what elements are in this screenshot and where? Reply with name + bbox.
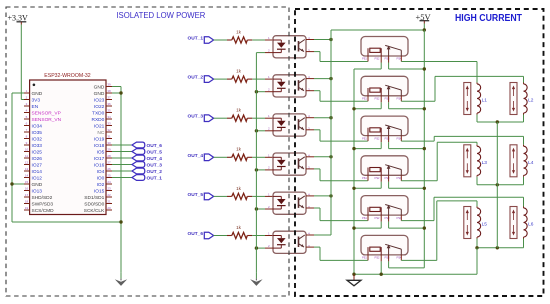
junction mid rail pair 2: [496, 183, 499, 186]
inductor L6: [510, 207, 534, 239]
wire K1 coil pin 1 stub: [367, 56, 369, 62]
svg-text:OUT_5: OUT_5: [147, 150, 163, 156]
svg-text:L3: L3: [482, 160, 488, 166]
svg-text:31: 31: [107, 135, 111, 139]
wire OUT_5 to R5: [214, 195, 227, 197]
wire K3 NO to L4: [401, 136, 523, 144]
wire K6 NO to L5: [401, 201, 477, 261]
U1 right pin 35 TXD0: [92, 109, 112, 117]
svg-text:SD0/SD0: SD0/SD0: [84, 201, 104, 207]
junction OK5 collector: [329, 194, 332, 197]
svg-text:OUT_4: OUT_4: [188, 153, 204, 159]
U1 right pin 39 GND: [94, 83, 112, 91]
relay K1: [361, 37, 408, 61]
U1 left pin 5 SENSOR_VN: [24, 115, 62, 123]
svg-text:SENSOR_VN: SENSOR_VN: [32, 117, 62, 123]
port flag OUT_5: [204, 193, 213, 200]
wire K6 NO contact stub: [400, 255, 402, 261]
wire K5 coil pin 1 stub: [367, 215, 369, 221]
wire K2 coil pin 1 stub: [367, 96, 369, 102]
U1 right pin 32 NC: [97, 128, 112, 136]
port flag OUT_1: [204, 37, 213, 44]
junction OK3 cathode: [255, 129, 258, 132]
junction return rail at K4: [352, 187, 355, 190]
svg-text:12: 12: [25, 161, 29, 165]
wire OK3 cathode to ground rail: [256, 130, 273, 132]
U1 right pin 26 IO4: [97, 167, 112, 175]
inductor L4: [510, 145, 534, 177]
svg-text:P$2: P$2: [375, 176, 380, 180]
svg-text:L5: L5: [482, 222, 488, 228]
wire K1 NO contact stub: [400, 56, 402, 62]
svg-text:OUT_3: OUT_3: [147, 163, 163, 169]
svg-text:24: 24: [107, 180, 111, 184]
wire U1 GND pins right side to ground rail: [112, 87, 121, 223]
svg-text:23: 23: [107, 187, 111, 191]
U1 right pin 30 IO18: [94, 141, 112, 149]
svg-text:16: 16: [25, 187, 29, 191]
svg-text:35: 35: [107, 109, 111, 113]
net label OUT_6: [188, 231, 204, 237]
svg-text:OUT_2: OUT_2: [188, 75, 204, 81]
relay K6: [361, 235, 408, 259]
wire OK2 emitter to relay K2 coil: [306, 91, 368, 102]
wire opto cathode common rail: [255, 53, 257, 273]
svg-text:1k: 1k: [236, 108, 242, 113]
U1 right pin 33 IO21: [94, 122, 112, 130]
svg-text:P$2: P$2: [375, 216, 380, 220]
svg-text:ESP32-WROOM-32: ESP32-WROOM-32: [44, 73, 91, 79]
wire K5 common to +5V rail: [389, 215, 425, 228]
wire K4 NO to L3: [401, 142, 477, 181]
svg-text:IO21: IO21: [94, 123, 105, 129]
U1 right pin 27 IO16: [94, 161, 112, 169]
ground symbol GND3 (high current earth): [347, 274, 361, 286]
svg-text:17: 17: [25, 193, 29, 197]
inductor L5: [464, 207, 487, 239]
U1 right pin 29 IO5: [97, 148, 112, 156]
svg-text:OUT_1: OUT_1: [147, 176, 163, 182]
svg-text:IO15: IO15: [94, 188, 105, 194]
wire U1 pin to port OUT_4: [112, 157, 132, 159]
svg-text:L4: L4: [528, 160, 534, 166]
optocoupler OK5: [268, 192, 310, 214]
ground symbol GND2 (opto cathode return): [250, 272, 262, 286]
junction +5V rail at K5 common: [423, 226, 426, 229]
junction GND bottom rail: [119, 220, 122, 223]
svg-text:21: 21: [107, 200, 111, 204]
svg-text:P$3: P$3: [385, 216, 390, 220]
wire OK1 cathode to ground rail: [256, 52, 273, 54]
wire U1 pin to port OUT_1: [112, 177, 132, 179]
svg-text:SWP/SD3: SWP/SD3: [32, 201, 54, 207]
svg-text:18: 18: [25, 200, 29, 204]
wire OK5 collector to +5V rail: [306, 195, 331, 197]
wire L5 bottom to ground bus: [476, 248, 478, 274]
svg-text:15: 15: [25, 180, 29, 184]
wire OK5 cathode to ground rail: [256, 208, 273, 210]
net label OUT_2: [188, 75, 204, 81]
svg-text:+3.3V: +3.3V: [8, 13, 29, 22]
svg-text:P$3: P$3: [385, 256, 390, 260]
svg-text:IO33: IO33: [32, 143, 43, 149]
U1 right pin 22 SD1/SD1: [84, 193, 112, 201]
svg-text:11: 11: [25, 154, 28, 158]
svg-text:IO4: IO4: [97, 169, 105, 175]
U1 left pin 2 3V3: [24, 96, 40, 104]
junction return rail at K3: [352, 147, 355, 150]
U1 right pin 38 GND: [94, 89, 112, 97]
inductor L3: [464, 145, 487, 177]
relay K5: [361, 196, 408, 220]
svg-text:P$3: P$3: [385, 176, 390, 180]
junction +5V rail at K1 common: [423, 67, 426, 70]
svg-text:SCS/CMD: SCS/CMD: [32, 208, 55, 214]
junction GND right rail: [119, 91, 122, 94]
relay K4: [361, 156, 408, 180]
junction OK2 collector: [329, 77, 332, 80]
wire K2 NO to L2: [401, 76, 523, 101]
net label OUT_5: [188, 192, 204, 198]
svg-text:IO5: IO5: [97, 149, 105, 155]
ESP32 module U1 ESP32-WROOM-32: [30, 73, 106, 215]
optocoupler OK4: [268, 153, 310, 175]
resistor R1 1k: [227, 29, 252, 43]
svg-text:IO0: IO0: [97, 175, 105, 181]
U1 right pin 24 IO2: [97, 180, 112, 188]
svg-text:P$3: P$3: [385, 136, 390, 140]
svg-text:22: 22: [107, 193, 111, 197]
U1 right pin 37 IO23: [94, 96, 112, 104]
svg-text:IO13: IO13: [32, 188, 43, 194]
wire K5 coil pin 2 to return rail: [354, 215, 381, 228]
svg-text:27: 27: [107, 161, 111, 165]
wire K2 coil pin 2 to return rail: [354, 96, 381, 109]
svg-text:37: 37: [107, 96, 111, 100]
wire OK5 emitter to relay K5 coil: [306, 208, 368, 221]
U1 right pin 23 IO15: [94, 187, 112, 195]
U1 right pin 36 IO22: [94, 102, 112, 110]
wire OUT_6 to R6: [214, 235, 227, 237]
wire OUT_1 to R1: [214, 39, 227, 41]
junction L5 bottom to ground bus: [475, 246, 478, 249]
optocoupler OK3: [268, 114, 310, 136]
resistor R2 1k: [227, 69, 252, 83]
inductor L1: [464, 83, 487, 115]
wire R6 to optocoupler OK6: [252, 235, 273, 237]
svg-text:RXD0: RXD0: [92, 117, 105, 123]
power symbol +3.3V: [8, 13, 29, 24]
wire +5V top rail: [331, 24, 424, 31]
svg-text:IO32: IO32: [32, 136, 43, 142]
svg-text:38: 38: [107, 89, 111, 93]
svg-text:SCK/CLK: SCK/CLK: [84, 208, 105, 214]
net label OUT_1: [188, 36, 204, 42]
resistor R5 1k: [227, 186, 252, 200]
U1 left pin 6 IO34: [24, 122, 42, 130]
svg-text:1k: 1k: [236, 147, 242, 152]
relay K3: [361, 116, 408, 140]
svg-text:14: 14: [25, 174, 29, 178]
U1 left pin 4 SENSOR_VP: [24, 109, 61, 117]
svg-text:SD1/SD1: SD1/SD1: [84, 195, 104, 201]
wire L1 L2 bottom join: [477, 115, 524, 123]
svg-text:L1: L1: [482, 98, 488, 104]
svg-text:L2: L2: [528, 98, 534, 104]
junction +5V rail at K3 common: [423, 147, 426, 150]
svg-text:GND: GND: [94, 91, 105, 97]
svg-text:29: 29: [107, 148, 111, 152]
svg-text:IO14: IO14: [32, 169, 43, 175]
svg-text:P$2: P$2: [375, 57, 380, 61]
wire K3 coil pin 2 to return rail: [354, 136, 381, 149]
isolated low power region dashed box: [6, 7, 289, 296]
svg-text:OUT_3: OUT_3: [188, 114, 204, 120]
U1 left pin 3 EN: [24, 102, 39, 110]
inductor L2: [510, 83, 534, 115]
svg-text:OUT_4: OUT_4: [147, 156, 163, 162]
resistor R4 1k: [227, 147, 252, 161]
wire +5V relay common rail: [423, 30, 425, 268]
svg-text:30: 30: [107, 141, 111, 145]
svg-text:IO26: IO26: [32, 156, 43, 162]
junction +5V at rail: [423, 28, 426, 31]
wire K3 NO contact stub: [400, 136, 402, 142]
wire U1 pin to port OUT_5: [112, 151, 132, 153]
wire L3 L4 bottom join: [477, 177, 524, 185]
U1 left pin 11 IO26: [24, 154, 42, 162]
svg-text:10: 10: [25, 148, 29, 152]
wire K1 NO to L1: [401, 62, 477, 83]
wire U1 GND pins left side: [12, 93, 121, 272]
ground symbol GND1 (digital ground): [115, 272, 127, 286]
wire K3 common to +5V rail: [389, 136, 425, 149]
wire OK1 collector to +5V rail: [306, 39, 331, 41]
wire L5 L6 bottom join: [477, 239, 524, 248]
junction OK3 collector: [329, 116, 332, 119]
wire R4 to optocoupler OK4: [252, 156, 273, 158]
wire relay coil return rail to ground: [353, 69, 355, 274]
svg-text:P$1: P$1: [362, 97, 367, 101]
svg-text:TXD0: TXD0: [92, 110, 105, 116]
svg-text:P$1: P$1: [362, 136, 367, 140]
optocoupler OK1: [268, 36, 310, 58]
wire R2 to optocoupler OK2: [252, 78, 273, 80]
junction return rail at K5: [352, 226, 355, 229]
svg-text:IO35: IO35: [32, 130, 43, 136]
U1 left pin 13 IO14: [24, 167, 42, 175]
U1 left pin 9 IO33: [24, 141, 42, 149]
svg-text:OUT_5: OUT_5: [188, 192, 204, 198]
port flag OUT_6: [204, 232, 213, 239]
U1 left pin 15 GND: [24, 180, 43, 188]
junction +5V rail at K2 common: [423, 107, 426, 110]
wire K1 coil pin 2 to return rail: [354, 56, 381, 69]
U1 left pin 1 GND: [24, 89, 43, 97]
svg-text:GND: GND: [94, 84, 105, 90]
wire U1 pin to port OUT_6: [112, 144, 132, 146]
wire K4 common to +5V rail: [389, 175, 425, 188]
port flag OUT_2 at U1: [132, 168, 162, 175]
U1 left pin 12 IO27: [24, 161, 42, 169]
svg-text:OUT_6: OUT_6: [188, 231, 204, 237]
wire K3 coil pin 1 stub: [367, 136, 369, 142]
port flag OUT_5 at U1: [132, 149, 162, 156]
svg-text:28: 28: [107, 154, 111, 158]
wire OK1 emitter to relay K1 coil: [306, 52, 368, 62]
junction mid rail pair 3: [496, 246, 499, 249]
net label OUT_3: [188, 114, 204, 120]
junction OK4 collector: [329, 155, 332, 158]
high current region dashed box: [295, 9, 544, 296]
svg-text:P$1: P$1: [362, 256, 367, 260]
svg-text:HIGH CURRENT: HIGH CURRENT: [455, 13, 523, 24]
optocoupler OK6: [268, 231, 310, 253]
junction OK1 collector: [329, 38, 332, 41]
svg-text:39: 39: [107, 83, 111, 87]
svg-text:IO2: IO2: [97, 182, 105, 188]
wire U1 pin to port OUT_2: [112, 170, 132, 172]
U1 right pin 20 SCK/CLK: [84, 206, 112, 214]
svg-text:IO34: IO34: [32, 123, 43, 129]
svg-text:34: 34: [107, 115, 111, 119]
port flag OUT_3 at U1: [132, 162, 162, 169]
svg-text:ISOLATED LOW POWER: ISOLATED LOW POWER: [116, 10, 205, 20]
svg-text:SENSOR_VP: SENSOR_VP: [32, 110, 61, 116]
port flag OUT_2: [204, 76, 213, 83]
U1 right pin 34 RXD0: [92, 115, 112, 123]
U1 right pin 31 IO19: [94, 135, 112, 143]
resistor R3 1k: [227, 108, 252, 122]
port flag OUT_6 at U1: [132, 142, 162, 149]
wire K5 NO contact stub: [400, 215, 402, 221]
svg-text:IO12: IO12: [32, 175, 43, 181]
svg-text:OUT_6: OUT_6: [147, 143, 163, 149]
svg-text:1k: 1k: [236, 69, 242, 74]
junction +5V rail at K4 common: [423, 187, 426, 190]
wire OK4 emitter to relay K4 coil: [306, 169, 368, 181]
svg-text:1k: 1k: [236, 29, 242, 34]
port flag OUT_4 at U1: [132, 155, 162, 162]
label ISOLATED LOW POWER: [116, 10, 205, 20]
wire R1 to optocoupler OK1: [252, 39, 273, 41]
svg-text:EN: EN: [32, 104, 39, 110]
svg-text:IO18: IO18: [94, 143, 105, 149]
svg-text:P$1: P$1: [362, 57, 367, 61]
junction ground node: [352, 273, 355, 276]
wire K6 coil pin 2 to return rail: [380, 255, 382, 274]
wire OK6 cathode to ground rail: [256, 247, 273, 249]
wire K2 common to +5V rail: [389, 96, 425, 109]
svg-text:IO23: IO23: [94, 97, 105, 103]
wire OK6 collector to +5V rail: [306, 234, 331, 236]
wire OUT_2 to R2: [214, 78, 227, 80]
svg-text:IO17: IO17: [94, 156, 105, 162]
port flag OUT_3: [204, 115, 213, 122]
wire K6 coil pin 1 stub: [367, 255, 369, 261]
wire OK4 cathode to ground rail: [256, 169, 273, 171]
svg-text:L6: L6: [528, 222, 534, 228]
junction left GND pin 15: [10, 182, 13, 185]
svg-text:P$2: P$2: [375, 256, 380, 260]
svg-text:25: 25: [107, 174, 111, 178]
power symbol +5V: [416, 12, 432, 23]
svg-text:36: 36: [107, 102, 111, 106]
wire mid rail pair1-pair2: [496, 122, 498, 185]
U1 right pin 21 SD0/SD0: [84, 200, 112, 208]
svg-text:19: 19: [25, 206, 29, 210]
U1 left pin 14 IO12: [24, 174, 42, 182]
junction OK6 cathode: [255, 246, 258, 249]
svg-text:OUT_2: OUT_2: [147, 169, 163, 175]
svg-text:1k: 1k: [236, 225, 242, 230]
resistor R6 1k: [227, 225, 252, 239]
wire OK3 collector to +5V rail: [306, 117, 331, 119]
optocoupler OK2: [268, 75, 310, 97]
svg-text:26: 26: [107, 167, 111, 171]
wire U1 pin to port OUT_3: [112, 164, 132, 166]
junction mid rail pair 1: [496, 120, 499, 123]
wire +3.3V to U1 3V3 pin: [21, 25, 24, 100]
junction OK5 cathode: [255, 207, 258, 210]
wire OK4 collector to +5V rail: [306, 156, 331, 158]
U1 left pin 19 SCS/CMD: [24, 206, 54, 214]
wire OK6 emitter to relay K6 coil: [306, 247, 368, 260]
wire K4 NO contact stub: [400, 175, 402, 181]
U1 left pin 18 SWP/SD3: [24, 200, 53, 208]
svg-text:P$2: P$2: [375, 136, 380, 140]
U1 right pin 25 IO0: [97, 174, 112, 182]
svg-text:P$3: P$3: [385, 57, 390, 61]
junction return rail at K2: [352, 107, 355, 110]
svg-text:32: 32: [107, 128, 111, 132]
svg-text:GND: GND: [32, 182, 43, 188]
svg-text:IO27: IO27: [32, 162, 43, 168]
U1 left pin 8 IO32: [24, 135, 42, 143]
wire mid rail pair2-pair3: [496, 185, 498, 248]
svg-text:IO19: IO19: [94, 136, 105, 142]
wire R3 to optocoupler OK3: [252, 117, 273, 119]
svg-text:IO16: IO16: [94, 162, 105, 168]
wire OK2 collector to +5V rail: [306, 78, 331, 80]
svg-text:13: 13: [25, 167, 29, 171]
wire bottom ground bus: [354, 273, 477, 275]
svg-text:NC: NC: [97, 130, 104, 136]
svg-text:OUT_1: OUT_1: [188, 36, 204, 42]
junction OK4 cathode: [255, 168, 258, 171]
junction OK2 cathode: [255, 90, 258, 93]
U1 left pin 16 IO13: [24, 187, 42, 195]
port flag OUT_1 at U1: [132, 175, 162, 182]
wire OK3 emitter to relay K3 coil: [306, 130, 368, 141]
svg-text:IO22: IO22: [94, 104, 105, 110]
wire K4 coil pin 1 stub: [367, 175, 369, 181]
U1 left pin 7 IO35: [24, 128, 42, 136]
svg-text:33: 33: [107, 122, 111, 126]
label HIGH CURRENT: [455, 13, 523, 24]
wire +5V collector rail: [330, 30, 332, 235]
wire OK2 cathode to ground rail: [256, 91, 273, 93]
svg-text:SHD/SD2: SHD/SD2: [32, 195, 53, 201]
wire K2 NO contact stub: [400, 96, 402, 102]
U1 right pin 28 IO17: [94, 154, 112, 162]
svg-text:P$1: P$1: [362, 216, 367, 220]
net label OUT_4: [188, 153, 204, 159]
U1 left pin 17 SHD/SD2: [24, 193, 53, 201]
wire K4 coil pin 2 to return rail: [354, 175, 381, 188]
wire K6 common to +5V rail: [389, 255, 425, 268]
svg-text:P$1: P$1: [362, 176, 367, 180]
